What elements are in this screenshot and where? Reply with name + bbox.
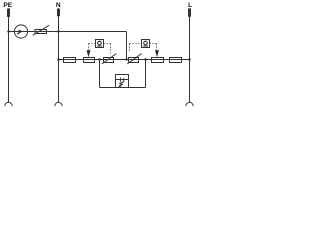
svg-text:L: L	[188, 2, 192, 9]
svg-text:PE: PE	[3, 2, 12, 9]
svg-text:N: N	[56, 2, 61, 9]
